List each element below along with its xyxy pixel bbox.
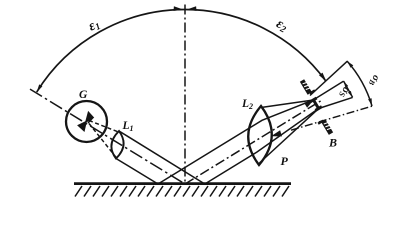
- wire axis incident beam (dash-dot): [30, 89, 185, 184]
- beam direction arrow on axis: [271, 130, 282, 136]
- arrow sigmaB top: [347, 61, 353, 68]
- arrow sigmaS down: [348, 91, 353, 98]
- fan line sigmaS upper: [313, 81, 343, 100]
- fan line sigmaB lower (dash-dot): [291, 106, 373, 130]
- lens L1: [111, 131, 123, 159]
- svg-text:σB: σB: [367, 73, 382, 87]
- ground hatching: [75, 186, 289, 197]
- arc epsilon1: [37, 10, 185, 93]
- arrow epsilon2 lower end: [319, 73, 326, 82]
- ray incident lower edge: [116, 159, 158, 185]
- arrow epsilon1 left end: [37, 84, 43, 92]
- ray incident upper edge: [119, 131, 205, 184]
- svg-text:ε2: ε2: [273, 16, 290, 35]
- lamp filament: [79, 113, 94, 131]
- ray lens bottom tip to slit: [259, 109, 318, 163]
- svg-text:L1: L1: [122, 120, 134, 133]
- ray dashed filament to lens bottom: [89, 124, 116, 158]
- svg-text:ε1: ε1: [86, 17, 102, 36]
- fan line sigmaS lower: [319, 97, 353, 108]
- svg-text:L2: L2: [241, 98, 253, 111]
- svg-text:B: B: [328, 136, 337, 150]
- baffle upper bar (hatched): [302, 81, 315, 94]
- arc sigmaB dimension: [347, 61, 372, 106]
- svg-text:P: P: [281, 154, 289, 168]
- node normal: vertical dash-dot center line: [184, 5, 186, 185]
- ray lens top tip to slit: [261, 100, 313, 108]
- arrow epsilon1 top end: [174, 6, 184, 11]
- arrow into slit: [304, 101, 313, 108]
- wire axis reflected beam (dash-dot): [185, 100, 322, 184]
- lens L2: [248, 106, 272, 165]
- lamp G circle: [66, 101, 107, 142]
- slit aperture (I shape): [310, 98, 322, 110]
- arrow epsilon2 top end: [186, 6, 196, 11]
- baffle lower bar B (hatched): [318, 121, 331, 134]
- arrow sigmaB bottom: [368, 98, 372, 106]
- fan line sigmaB upper (dash-dot): [310, 61, 347, 95]
- dimension line sigmaS: [344, 81, 353, 97]
- ray dashed filament to lens top: [89, 121, 119, 133]
- arrow sigmaS up: [344, 81, 349, 88]
- svg-text:G: G: [79, 89, 88, 101]
- arc epsilon2: [185, 10, 326, 81]
- ray reflected edge from right ground point: [205, 109, 319, 185]
- surface P ground line: [74, 182, 291, 185]
- ray reflected edge from left ground point: [158, 100, 313, 184]
